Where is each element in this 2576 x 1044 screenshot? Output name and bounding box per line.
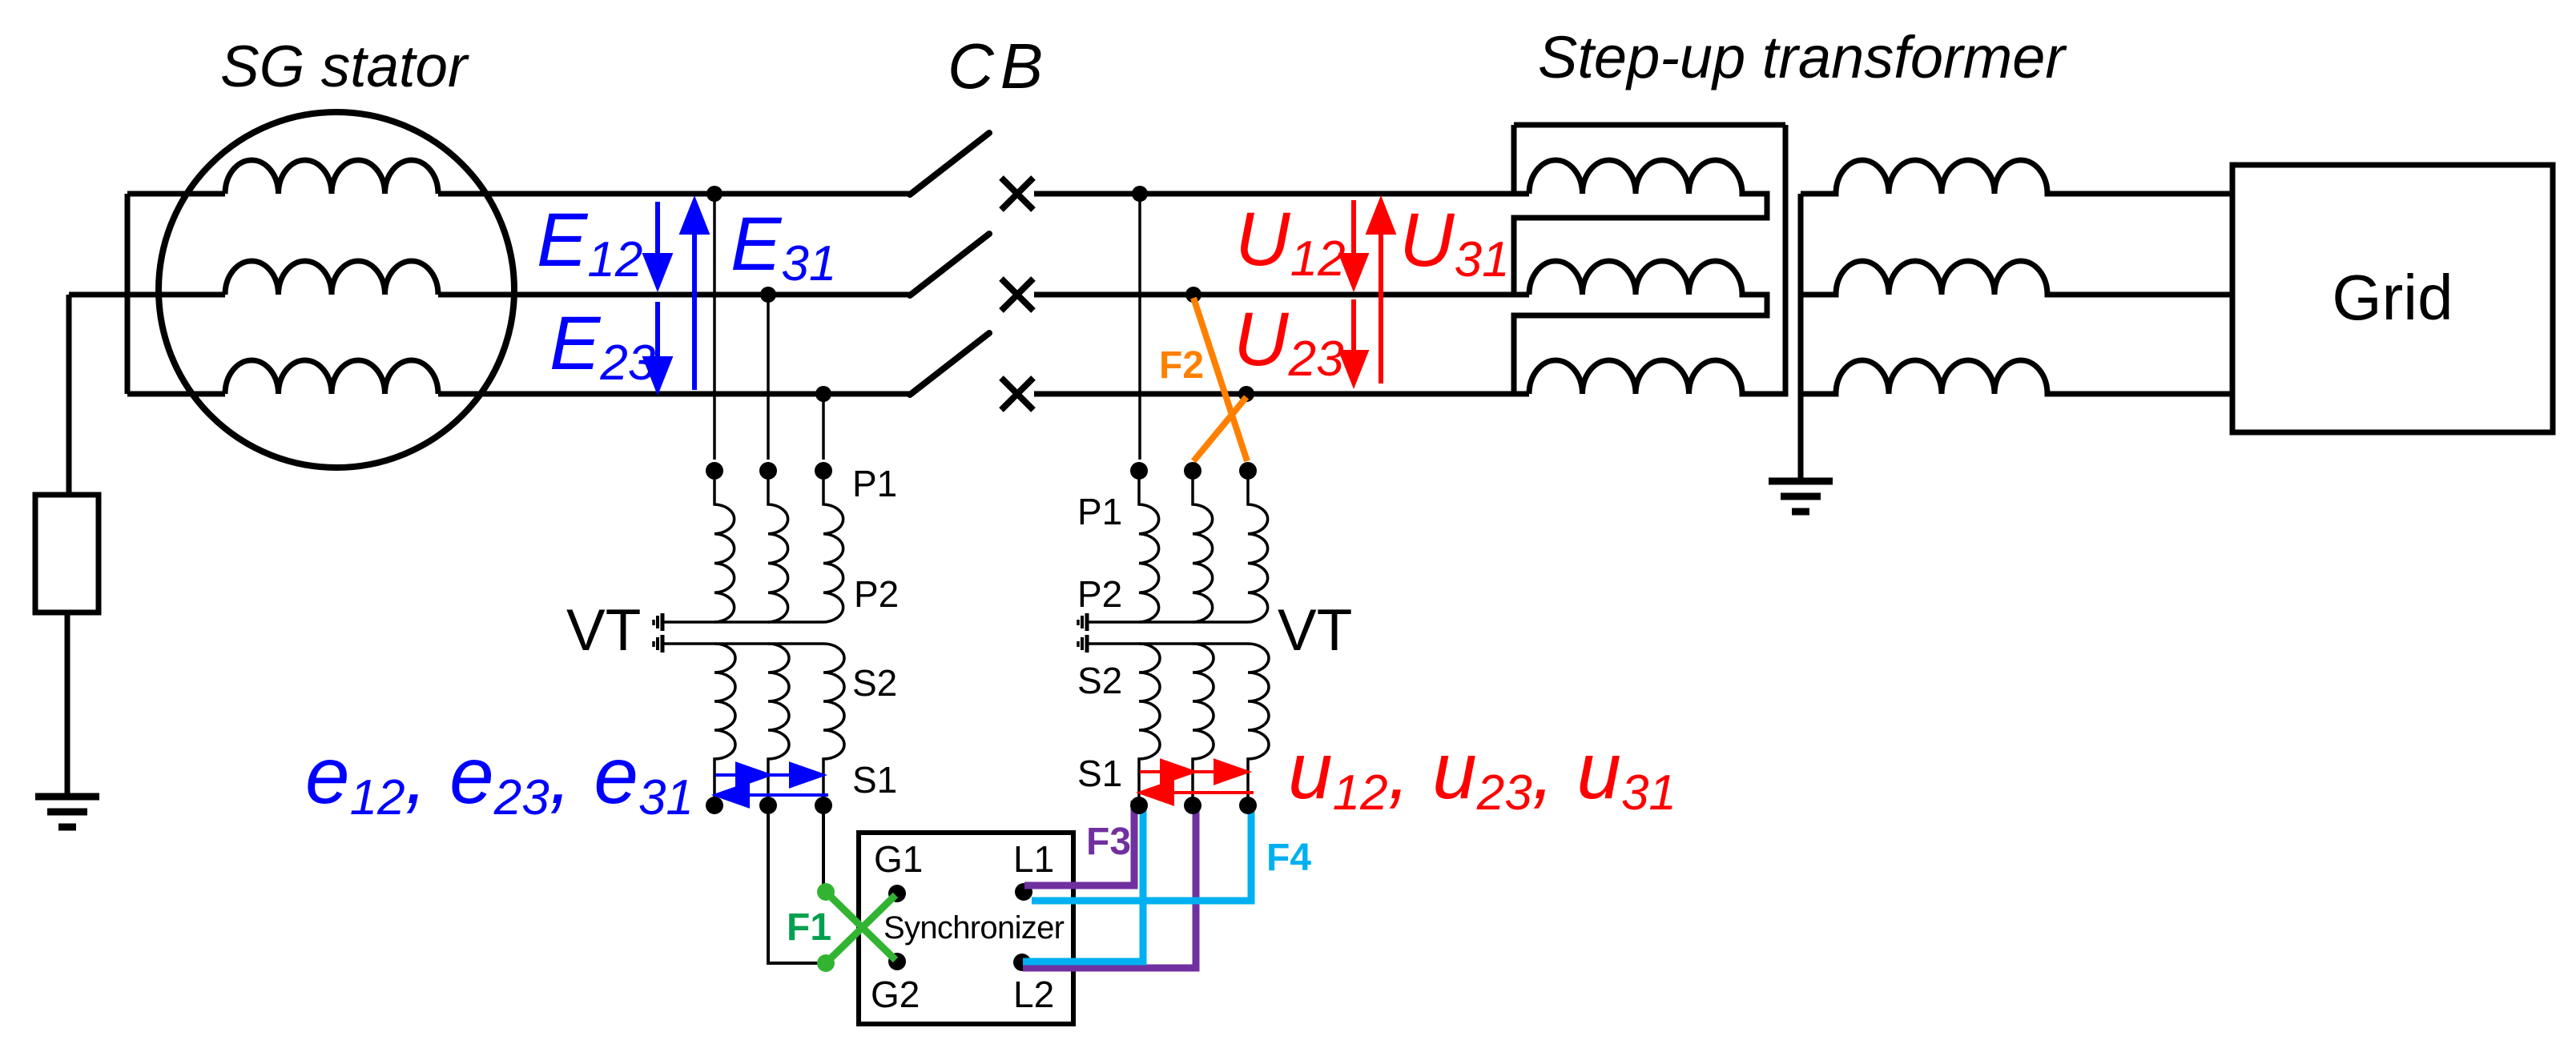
right VT S2 common lead: [1089, 642, 1248, 645]
svg-text:VT: VT: [566, 598, 641, 663]
delta vertical left top: [1511, 125, 1517, 194]
left VT primary coil 3: [823, 468, 843, 622]
transformer secondary winding A: [1801, 160, 2232, 194]
phasor arrow E12: [646, 202, 670, 286]
right VT P2 ground mark: [1078, 613, 1087, 631]
stator winding W2: [225, 261, 438, 295]
wire phase1 left link segment: [127, 191, 225, 197]
transformer primary winding B: [1514, 261, 1767, 394]
node tap phase2 right: [1185, 287, 1201, 303]
fault F2 swapped wire a: [1193, 298, 1247, 461]
wire phase2 CB to transformer: [1034, 292, 1529, 298]
generator SG stator circle: [159, 112, 514, 468]
CB contact X phase2: [1001, 279, 1033, 311]
red phasor arrows u right: [1140, 761, 1254, 804]
ground symbol transformer neutral: [1769, 481, 1833, 512]
svg-text:L1: L1: [1013, 838, 1054, 880]
stator winding W1: [225, 160, 438, 194]
svg-text:P2: P2: [1077, 573, 1122, 615]
transformer delta top bus: [1514, 122, 1785, 128]
svg-text:F4: F4: [1266, 837, 1311, 879]
circuit breaker CB blade phase3: [910, 333, 989, 395]
phasor arrow U12: [1342, 200, 1366, 286]
svg-text:S2: S2: [1077, 660, 1122, 701]
wire phase1 to CB: [438, 191, 912, 197]
left VT secondary coil 3: [823, 644, 844, 804]
wire stator left vertical link: [125, 194, 131, 394]
circuit breaker CB blade phase2: [910, 234, 989, 295]
svg-text:VT: VT: [1278, 598, 1352, 663]
svg-text:G1: G1: [874, 838, 923, 880]
svg-text:CB: CB: [948, 30, 1049, 102]
right VT P2 common lead: [1089, 620, 1248, 624]
left VT primary coil 2: [768, 468, 788, 622]
svg-text:Grid: Grid: [2332, 262, 2453, 333]
node tap phase1 left: [706, 186, 722, 202]
CB contact X phase1: [1001, 178, 1033, 210]
right VT bottom node 1: [1130, 797, 1148, 814]
left VT top node 1: [706, 462, 723, 480]
wire VT1 col3 to G1: [822, 805, 825, 887]
phasor arrow U23: [1342, 299, 1366, 383]
node G1: [888, 885, 906, 902]
wire phase2 left segment: [69, 292, 225, 298]
svg-text:G2: G2: [871, 974, 920, 1015]
right VT bottom node 2: [1184, 797, 1201, 814]
right VT secondary coil 3: [1248, 644, 1269, 804]
circuit breaker CB blade phase1: [910, 133, 989, 195]
svg-text:S1: S1: [852, 759, 897, 801]
transformer primary winding C: [1529, 125, 1785, 394]
node tap phase1 right: [1132, 186, 1148, 202]
wire phase1 CB to transformer: [1034, 191, 1529, 197]
left VT top node 2: [759, 462, 777, 480]
right VT secondary coil 1: [1139, 644, 1160, 804]
right VT top node 3: [1239, 462, 1257, 480]
left VT top node 3: [815, 462, 832, 480]
right VT top node 1: [1130, 462, 1148, 480]
fault F1 green node a: [817, 883, 835, 901]
right VT primary coil 1: [1139, 468, 1159, 622]
svg-text:F1: F1: [787, 906, 831, 949]
right VT S2 ground mark: [1078, 635, 1087, 652]
grounding resistor: [35, 495, 99, 612]
svg-text:P1: P1: [852, 463, 897, 504]
wire neutral down to resistor: [66, 295, 72, 495]
svg-text:L2: L2: [1013, 974, 1054, 1015]
right VT top node 2: [1184, 462, 1201, 480]
fault F3 purple wire 1 to L1: [1024, 801, 1134, 885]
ground symbol left: [35, 797, 99, 827]
stator winding W3: [225, 360, 438, 394]
left VT S2 common lead: [664, 642, 823, 645]
CB contact X phase3: [1001, 378, 1033, 410]
transformer wye vertical: [1798, 194, 1804, 480]
fault F4 cyan wire 1 to L1: [1032, 801, 1251, 901]
fault F1 green node b: [817, 954, 835, 972]
fault F4 cyan wire 2 to L2: [1023, 801, 1143, 962]
node L2: [1013, 954, 1031, 971]
transformer secondary winding C: [1801, 360, 2232, 394]
svg-text:Synchronizer: Synchronizer: [883, 910, 1065, 946]
wire phase2 to CB: [438, 292, 912, 298]
svg-text:S2: S2: [852, 662, 897, 704]
blue phasor arrows e right: [715, 764, 828, 806]
right VT bottom node 3: [1239, 797, 1257, 814]
svg-text:SG stator: SG stator: [220, 34, 469, 99]
left VT bottom node 1: [706, 797, 723, 814]
wire VT1 col2 to G2: [768, 805, 819, 963]
wire tap2 down to VT1: [767, 295, 770, 460]
node tap phase2 left: [760, 287, 776, 303]
right VT primary coil 3: [1248, 468, 1268, 622]
node L1: [1015, 883, 1032, 901]
wire phase3 CB to transformer: [1034, 391, 1529, 397]
left VT S2 ground mark: [654, 635, 662, 652]
phasor arrow E31: [682, 202, 706, 390]
wire tap3 down to VT1: [822, 394, 825, 460]
wire phase3 to CB: [438, 391, 912, 397]
phasor arrow U31: [1369, 202, 1393, 383]
svg-text:Step-up transformer: Step-up transformer: [1538, 24, 2067, 90]
wire tap1 down to VT2: [1138, 194, 1141, 460]
right VT secondary coil 2: [1193, 644, 1214, 804]
left VT bottom node 3: [815, 797, 832, 814]
left VT secondary coil 1: [714, 644, 735, 804]
wire phase3 left link segment: [127, 391, 225, 397]
fault F2 swapped wire b: [1193, 397, 1246, 461]
svg-text:P2: P2: [854, 573, 899, 615]
transformer secondary winding B: [1801, 261, 2232, 295]
svg-text:F2: F2: [1159, 344, 1204, 387]
node G2: [888, 953, 906, 970]
synchronizer box: [859, 833, 1073, 1024]
left VT secondary coil 2: [768, 644, 789, 804]
svg-text:P1: P1: [1077, 491, 1122, 532]
fault F3 purple wire 2 to L2: [1023, 801, 1196, 968]
fault F1 green crossed wire a: [826, 892, 896, 960]
svg-text:F3: F3: [1086, 821, 1131, 863]
left VT P2 ground mark: [654, 613, 662, 631]
wire tap1 down to VT1: [713, 194, 716, 460]
Grid box: [2232, 165, 2553, 432]
transformer primary winding A: [1514, 160, 1767, 295]
left VT primary coil 1: [714, 468, 735, 622]
svg-text:S1: S1: [1077, 753, 1122, 794]
node tap phase3 left: [815, 386, 831, 402]
fault F1 green crossed wire b: [826, 895, 896, 963]
wire resistor to ground: [65, 612, 70, 795]
left VT bottom node 2: [759, 797, 777, 814]
left VT P2 common lead: [664, 620, 823, 624]
node tap phase3 right: [1238, 386, 1254, 402]
phasor arrow E23: [646, 302, 670, 389]
right VT primary coil 2: [1193, 468, 1213, 622]
